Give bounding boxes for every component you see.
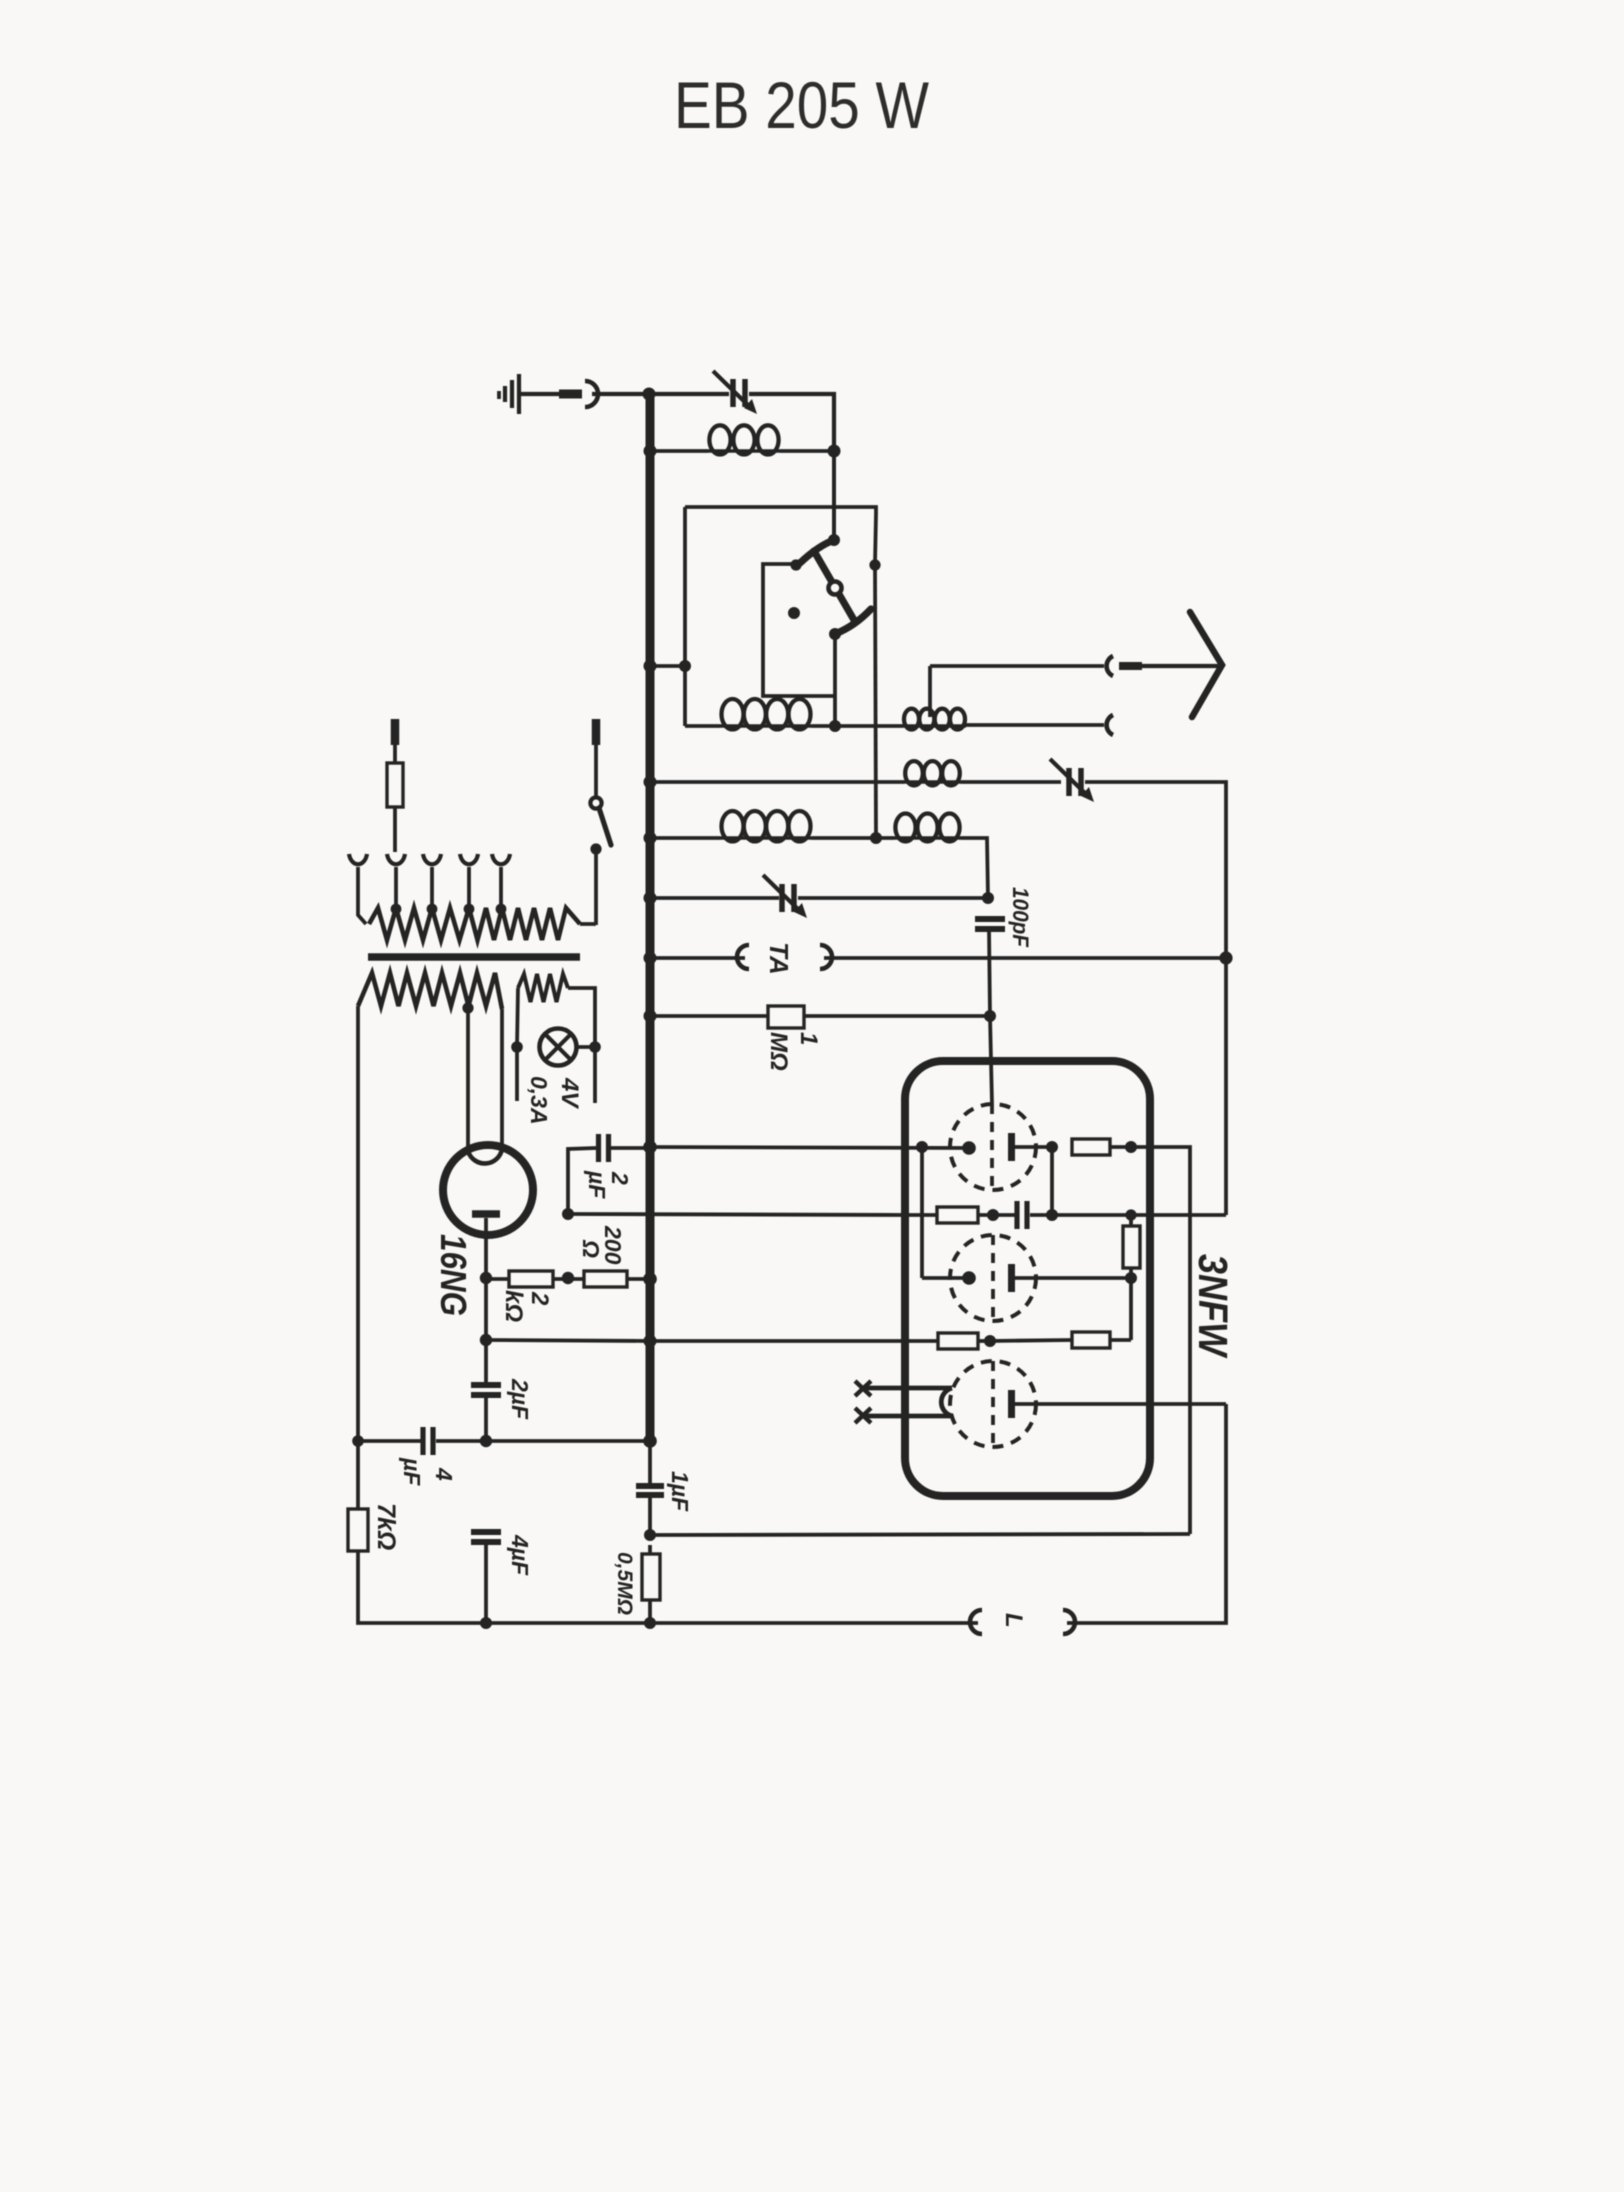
wire	[832, 451, 836, 540]
node	[643, 1140, 657, 1154]
wire	[484, 1278, 488, 1382]
wire	[978, 1213, 1015, 1217]
connector L	[1063, 1610, 1075, 1634]
variable capacitor C1	[730, 379, 736, 407]
node	[1125, 1141, 1137, 1153]
coil L2	[720, 724, 812, 728]
svg-text:0,3A: 0,3A	[526, 1076, 552, 1125]
node	[643, 1272, 657, 1286]
tube 16NG anode	[472, 1210, 500, 1218]
wire	[358, 1551, 484, 1623]
plug pin	[559, 390, 582, 399]
node	[987, 1209, 999, 1221]
wire	[650, 1014, 768, 1018]
switch S1 contact	[790, 559, 801, 570]
resistor grid 2	[937, 1207, 978, 1223]
wire	[1110, 1338, 1131, 1342]
wire	[484, 1395, 488, 1441]
node	[679, 660, 691, 672]
wire	[611, 1146, 650, 1150]
wire	[812, 836, 894, 840]
svg-text:0,5MΩ: 0,5MΩ	[613, 1552, 636, 1615]
x mark	[855, 1408, 871, 1423]
node	[480, 1617, 492, 1629]
node	[916, 1141, 928, 1153]
wire	[648, 1495, 652, 1535]
wire	[978, 1339, 990, 1343]
switch S2 pivot	[590, 797, 601, 808]
svg-text:1µF: 1µF	[667, 1471, 693, 1512]
wire	[568, 1148, 596, 1214]
triode 2 grid	[991, 1235, 995, 1321]
wire	[1030, 1213, 1226, 1217]
voltage selector socket	[492, 854, 510, 864]
node	[644, 952, 657, 965]
connector TA	[737, 945, 749, 969]
wire	[875, 514, 876, 564]
node	[644, 445, 657, 458]
wire	[1129, 1268, 1133, 1278]
wire	[961, 838, 988, 898]
node	[984, 1010, 996, 1022]
svg-text:MΩ: MΩ	[765, 1032, 792, 1071]
capacitor 1uF	[636, 1483, 664, 1489]
wire row1	[650, 1147, 969, 1148]
node	[352, 1435, 364, 1447]
wire grid	[990, 1016, 992, 1104]
coil L3	[903, 724, 966, 728]
triode 2	[950, 1235, 1036, 1321]
wire	[484, 1542, 488, 1623]
svg-text:4: 4	[431, 1467, 457, 1481]
wire	[648, 1545, 652, 1554]
wire	[685, 724, 720, 728]
node	[644, 1529, 656, 1541]
wire	[922, 1276, 969, 1280]
node	[1125, 1272, 1137, 1284]
wire	[580, 924, 596, 925]
switch S1 lever	[814, 551, 854, 620]
resistor 0.5M	[642, 1554, 660, 1600]
transformer primary	[369, 908, 580, 940]
node	[1046, 1209, 1058, 1221]
wire tap	[467, 867, 471, 910]
wire	[484, 1621, 650, 1625]
wire tap	[499, 867, 503, 910]
capacitor 2uF	[596, 1134, 601, 1162]
wire	[594, 745, 598, 797]
voltage selector socket	[423, 854, 441, 864]
coil L1	[708, 449, 780, 453]
node	[643, 388, 656, 401]
node	[644, 892, 657, 905]
wire filament	[866, 1414, 952, 1419]
wire	[568, 988, 595, 1047]
wire	[1110, 1145, 1131, 1149]
wire row3 left	[486, 1340, 650, 1341]
svg-text:EB 205 W: EB 205 W	[674, 68, 930, 142]
capacitor 2uF lower	[471, 1382, 501, 1388]
wire	[356, 1441, 360, 1509]
node	[644, 660, 657, 673]
socket	[585, 381, 598, 407]
wire	[648, 1600, 652, 1623]
capacitor 100pF	[975, 916, 1005, 922]
antenna	[1190, 612, 1222, 717]
wire	[930, 664, 1104, 668]
resistor grid 3	[938, 1333, 978, 1349]
node	[464, 904, 475, 915]
wire	[393, 807, 397, 852]
triode 2 anode	[1008, 1264, 1015, 1292]
connector L	[970, 1610, 982, 1634]
wire	[798, 896, 988, 900]
coil L4	[904, 780, 961, 784]
svg-text:2: 2	[526, 1291, 553, 1306]
triode 3 anode	[1008, 1390, 1015, 1418]
wire filament	[866, 1386, 952, 1391]
node secondary tap	[462, 1002, 473, 1013]
node	[644, 1335, 657, 1348]
node	[480, 1272, 492, 1284]
voltage selector socket	[387, 854, 405, 864]
wire	[650, 664, 685, 668]
node	[643, 1434, 657, 1448]
svg-text:4V: 4V	[556, 1077, 583, 1109]
wire	[683, 666, 687, 726]
switch S1 rail	[685, 507, 876, 514]
wire row2	[905, 1213, 937, 1217]
bus wire thin	[648, 1441, 652, 1486]
variable capacitor C2	[1066, 768, 1072, 796]
svg-text:1: 1	[795, 1032, 822, 1045]
wire	[804, 1014, 990, 1018]
triode 2 cathode	[962, 1271, 976, 1285]
node	[984, 1335, 996, 1347]
wire	[990, 1340, 1072, 1341]
wire	[486, 1277, 509, 1281]
wire	[763, 564, 835, 696]
wire	[824, 956, 1226, 960]
svg-text:Ω: Ω	[578, 1239, 604, 1258]
capacitor 4uF lower	[471, 1529, 501, 1535]
wire	[966, 723, 1104, 727]
triode 1 cathode	[962, 1141, 976, 1155]
node	[644, 1010, 657, 1023]
wire	[650, 836, 720, 840]
wire filament	[466, 1008, 470, 1151]
node	[589, 1041, 601, 1053]
wire	[989, 929, 990, 1016]
wire	[650, 896, 779, 900]
wire stub	[593, 1047, 597, 1103]
switch S2 contact	[590, 843, 601, 854]
resistor lamp series	[518, 974, 568, 1002]
bus wire	[646, 394, 655, 1441]
svg-text:kΩ: kΩ	[500, 1290, 527, 1322]
variable capacitor C3	[779, 884, 785, 912]
switch S1 arm	[835, 609, 871, 634]
resistor 2k	[509, 1271, 553, 1287]
wire	[1142, 664, 1218, 668]
wire	[553, 1277, 584, 1281]
wire	[961, 780, 1061, 784]
coil L6	[894, 836, 961, 840]
node	[829, 720, 841, 732]
wire tap	[394, 867, 398, 910]
tube 16NG envelope	[443, 1145, 533, 1235]
node	[644, 832, 657, 845]
wire	[436, 1439, 486, 1443]
triode 1 anode	[1008, 1133, 1015, 1161]
node	[828, 445, 841, 458]
voltage selector socket	[349, 854, 367, 864]
wire	[484, 1218, 488, 1278]
wire row 4uF	[358, 1439, 421, 1443]
antenna socket	[1107, 656, 1113, 676]
wire row2 left	[568, 1214, 905, 1215]
wire	[592, 392, 650, 396]
voltage selector socket	[460, 854, 478, 864]
switch S1 contact	[869, 559, 880, 570]
node	[1219, 951, 1232, 964]
wire	[577, 1045, 596, 1049]
resistor 1M	[768, 1006, 804, 1028]
wire	[683, 507, 687, 666]
capacitor coupling	[1014, 1201, 1019, 1229]
wire	[749, 394, 834, 451]
wire	[650, 392, 729, 396]
wire	[521, 392, 559, 396]
resistor 7k	[348, 1509, 368, 1551]
wire	[486, 1439, 650, 1443]
wire	[1067, 1404, 1226, 1623]
node	[982, 892, 994, 904]
wire	[650, 956, 745, 960]
wire tap	[430, 867, 434, 910]
resistor anode 3	[1072, 1332, 1110, 1348]
node	[562, 1208, 574, 1220]
lamp 4V 0.3A	[540, 1029, 577, 1066]
mains pin	[592, 719, 601, 745]
wire	[393, 745, 397, 763]
triode 1 grid	[990, 1104, 994, 1190]
wire	[650, 1621, 978, 1625]
svg-text:L: L	[1000, 1613, 1027, 1628]
svg-text:4µF: 4µF	[507, 1534, 533, 1576]
wire	[780, 449, 834, 453]
switch S2 lever	[599, 808, 611, 845]
wire filament	[500, 1009, 504, 1149]
switch S1 spare contact	[788, 607, 800, 619]
node	[1046, 1141, 1058, 1153]
wire	[1131, 1147, 1190, 1534]
triode 1	[950, 1104, 1036, 1190]
wire	[356, 1006, 360, 1441]
capacitor 4uF left	[420, 1427, 425, 1455]
svg-text:3NFW: 3NFW	[1190, 1254, 1236, 1359]
wire row3	[650, 1339, 938, 1343]
node	[562, 1272, 574, 1284]
svg-text:100pF: 100pF	[1008, 887, 1033, 948]
wire	[650, 1534, 1190, 1535]
node	[870, 832, 882, 844]
wire	[594, 849, 598, 925]
triode 3	[950, 1361, 1036, 1447]
resistor anode 1	[1072, 1139, 1110, 1155]
resistor vertical	[1123, 1226, 1140, 1268]
wire	[1015, 1402, 1226, 1406]
mains pin	[391, 719, 400, 745]
wire	[875, 564, 876, 838]
wire	[1085, 782, 1226, 1215]
svg-text:16NG: 16NG	[433, 1234, 474, 1316]
node	[391, 904, 402, 915]
switch S1 pivot	[829, 582, 842, 595]
wire	[812, 724, 903, 728]
wire	[358, 867, 366, 924]
svg-text:µF: µF	[399, 1457, 425, 1486]
coil L5	[720, 836, 812, 840]
node	[511, 1041, 523, 1053]
switch S1 contact	[829, 628, 841, 640]
resistor 200	[584, 1271, 627, 1287]
transformer core	[368, 953, 580, 961]
wire	[627, 1277, 650, 1281]
wire	[540, 1045, 542, 1049]
switch S1 arm	[800, 540, 834, 563]
node	[496, 904, 507, 915]
ground	[517, 374, 521, 414]
wire stub	[515, 1047, 519, 1101]
wire	[1015, 1145, 1052, 1149]
transformer secondary	[358, 973, 502, 1009]
node	[644, 776, 657, 789]
wire	[650, 449, 708, 453]
svg-text:µF: µF	[584, 1170, 610, 1199]
triode 3 filament	[941, 1388, 952, 1416]
svg-text:7kΩ: 7kΩ	[372, 1503, 400, 1550]
switch S1 contact	[828, 534, 840, 546]
wire	[833, 634, 837, 726]
wire antenna tap	[928, 666, 932, 717]
node	[644, 1617, 656, 1629]
svg-text:2µF: 2µF	[507, 1378, 533, 1420]
x mark	[855, 1381, 871, 1396]
node	[427, 904, 438, 915]
wire	[517, 988, 518, 1047]
antenna socket	[1107, 715, 1113, 735]
wire	[1015, 1276, 1131, 1280]
node	[480, 1435, 492, 1447]
connector TA	[820, 945, 832, 969]
tube 16NG filament	[468, 1149, 502, 1163]
svg-text:TA: TA	[764, 942, 794, 975]
node	[480, 1334, 492, 1346]
node	[1125, 1209, 1136, 1220]
wire	[1129, 1278, 1133, 1340]
antenna pin	[1119, 662, 1142, 670]
wire	[1050, 1147, 1054, 1215]
triode 3 grid	[991, 1361, 995, 1447]
wire	[650, 780, 904, 784]
tube 3NFW envelope	[905, 1061, 1150, 1496]
wire	[1129, 1215, 1133, 1226]
fuse	[387, 763, 403, 807]
wire	[920, 1147, 924, 1278]
